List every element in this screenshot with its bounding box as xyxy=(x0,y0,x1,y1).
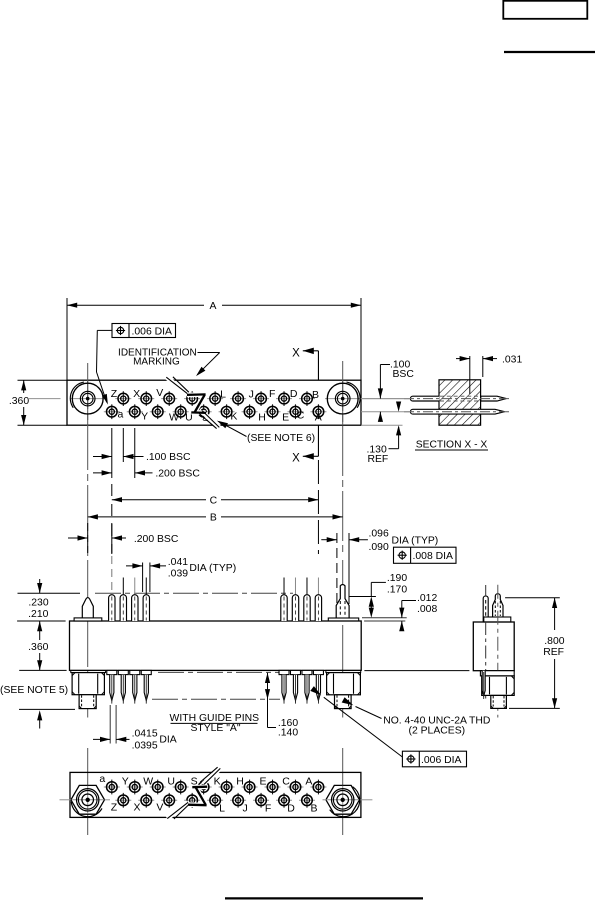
svg-text:.008: .008 xyxy=(417,604,437,615)
bottom view contact X (lower row) xyxy=(138,799,154,801)
svg-text:BSC: BSC xyxy=(393,369,415,380)
svg-text:Z: Z xyxy=(111,388,118,400)
svg-text:.360: .360 xyxy=(28,642,48,653)
svg-text:X: X xyxy=(133,388,140,400)
top view contact A (bottom row) xyxy=(310,411,326,413)
bottom view contact D (lower row) xyxy=(276,799,292,801)
svg-text:.012: .012 xyxy=(417,593,437,604)
extension line contact Z below body xyxy=(122,428,124,462)
front view left washer xyxy=(71,670,106,672)
dimension .012/.008 (flange thickness) xyxy=(362,617,407,619)
svg-text:.170: .170 xyxy=(387,584,407,595)
dimension B xyxy=(88,516,206,518)
top view .360 height dimension xyxy=(18,379,68,381)
svg-text:D: D xyxy=(287,802,295,814)
front view left guide pin flange xyxy=(74,618,102,621)
svg-text:Y: Y xyxy=(122,776,129,788)
svg-text:.800: .800 xyxy=(544,636,564,647)
svg-text:REF: REF xyxy=(543,647,564,658)
top view contact V (top row) xyxy=(161,398,177,400)
top view contact J (top row) xyxy=(230,398,246,400)
svg-text:.039: .039 xyxy=(168,568,188,579)
svg-text:MARKING: MARKING xyxy=(133,356,180,367)
leader: identification marking xyxy=(198,352,220,354)
svg-text:D: D xyxy=(290,388,298,400)
top view contact T (top row) xyxy=(184,398,200,400)
bottom view left hex nut xyxy=(71,785,105,814)
bottom view contact Y (upper row) xyxy=(127,786,143,788)
front view bottom pin column a xyxy=(107,670,117,674)
dimension .096/.090 DIA (TYP) xyxy=(321,539,337,541)
extension line contact Y below body xyxy=(134,428,136,478)
svg-text:H: H xyxy=(258,411,266,423)
top view contact U (bottom row) xyxy=(173,411,189,413)
top view contact a (bottom row) xyxy=(104,411,120,413)
svg-text:(SEE NOTE 5): (SEE NOTE 5) xyxy=(0,685,68,696)
title block box (top right) xyxy=(503,1,587,19)
dimension .160/.140 (bottom pin length) xyxy=(267,673,269,728)
bottom view contact E (upper row) xyxy=(265,786,281,788)
front view bottom dash-dot line at pin tip level xyxy=(152,698,280,700)
front view bottom pin column A xyxy=(313,670,323,674)
svg-text:U: U xyxy=(167,776,175,788)
top view contact B (top row) xyxy=(299,398,315,400)
front view right washer xyxy=(326,670,361,672)
svg-text:.140: .140 xyxy=(278,727,298,738)
front view pin tip line / row centerline (dash-dot) xyxy=(18,592,81,594)
bottom view contact V (lower row) xyxy=(161,799,177,801)
end view body xyxy=(473,622,514,671)
svg-text:DIA (TYP): DIA (TYP) xyxy=(392,536,439,547)
bottom view left hex nut flange arc xyxy=(71,802,102,817)
svg-text:F: F xyxy=(265,802,271,814)
svg-text:.200 BSC: .200 BSC xyxy=(155,469,200,480)
top view contact letters - top row xyxy=(111,387,319,401)
dimension .100 BSC (row offset) xyxy=(93,456,112,458)
svg-text:C: C xyxy=(297,410,305,422)
end view contact pin top xyxy=(483,596,488,622)
dimension C xyxy=(112,499,206,501)
front view bottom pin column D xyxy=(279,670,289,674)
front view left threaded stud xyxy=(79,695,96,709)
svg-text:STYLE "A": STYLE "A" xyxy=(190,723,240,734)
leader NO. 4-40 UNC-2A THD xyxy=(356,707,382,719)
left mounting hole centerline (horizontal) xyxy=(28,398,61,400)
svg-text:B: B xyxy=(312,389,319,401)
front view right guide pin xyxy=(336,585,349,619)
top view dimension A xyxy=(66,298,68,380)
front view right hex nut xyxy=(327,673,361,695)
section X-X bottom contact pin xyxy=(410,409,504,414)
bottom view contact K (upper row) xyxy=(219,786,235,788)
svg-text:L: L xyxy=(220,388,226,400)
front view top pin column D xyxy=(283,578,285,595)
svg-text:.096: .096 xyxy=(369,529,389,540)
svg-text:A: A xyxy=(305,776,312,788)
front view bottom pin column Y xyxy=(130,670,140,674)
section pin centerline top xyxy=(404,398,511,400)
svg-text:W: W xyxy=(143,776,153,788)
bottom view contact S (upper row) xyxy=(196,786,212,788)
svg-text:.041: .041 xyxy=(168,557,188,568)
end view threaded stud xyxy=(491,695,507,708)
top view contact C (bottom row) xyxy=(287,411,303,413)
top view contact H (bottom row) xyxy=(242,411,258,413)
bottom view contact U (upper row) xyxy=(173,786,189,788)
svg-text:SECTION X - X: SECTION X - X xyxy=(416,439,488,450)
svg-text:.100 BSC: .100 BSC xyxy=(146,452,191,463)
svg-text:.360: .360 xyxy=(9,396,29,407)
svg-text:.090: .090 xyxy=(369,542,389,553)
feature control frame .008 DIA xyxy=(394,547,457,563)
datum line from front view body bottom to end view xyxy=(364,670,469,672)
svg-text:A: A xyxy=(315,412,322,424)
svg-text:K: K xyxy=(230,411,237,423)
bottom view contact A (upper row) xyxy=(310,786,326,788)
bottom view contact T (lower row) xyxy=(184,799,200,801)
front view bottom pin column X xyxy=(141,670,151,674)
dimension .200 BSC (hole to contact) xyxy=(87,523,89,553)
top view contact L (top row) xyxy=(207,398,223,400)
svg-text:a: a xyxy=(117,409,123,421)
leader: (SEE NOTE 6) xyxy=(219,422,247,437)
dimension .200 BSC (contact pitch) xyxy=(93,472,112,474)
dimension .130 REF (section) xyxy=(396,402,401,412)
front view top pin column C xyxy=(294,578,296,595)
bottom view contact C (upper row) xyxy=(287,786,303,788)
end view bottom contact pin xyxy=(482,671,485,696)
left mounting hole xyxy=(87,380,89,425)
top view contact X (top row) xyxy=(138,398,154,400)
end view guide pin flange xyxy=(484,617,511,622)
top view contact W (bottom row) xyxy=(150,411,166,413)
front view top pin column Y xyxy=(134,578,136,595)
bottom view contact B (lower row) xyxy=(299,799,315,801)
front view left guide pin xyxy=(82,598,93,618)
dimension .230/.210 (pin height above body) xyxy=(37,583,42,593)
svg-text:V: V xyxy=(156,801,163,813)
svg-text:(SEE NOTE 6): (SEE NOTE 6) xyxy=(247,433,315,444)
dimension .360 (front view body height) xyxy=(17,620,66,622)
right mounting hole xyxy=(342,380,344,425)
bottom view contact Z (lower row) xyxy=(115,799,131,801)
bottom view right hex nut flange arc xyxy=(330,787,360,817)
feature control frame .006 DIA (top view) xyxy=(112,324,176,338)
dimension .190/.170 (right guide pin tip) xyxy=(350,596,376,598)
svg-text:.0395: .0395 xyxy=(132,741,158,752)
svg-text:(2 PLACES): (2 PLACES) xyxy=(409,726,466,737)
svg-text:.006 DIA: .006 DIA xyxy=(421,755,462,766)
front view bottom pin column B xyxy=(302,670,312,674)
bottom view contact a (upper row) xyxy=(104,786,120,788)
svg-text:F: F xyxy=(269,388,275,400)
front view top pin column X xyxy=(145,578,147,595)
extension lines from contact rows to section xyxy=(361,398,411,400)
svg-text:J: J xyxy=(249,388,254,400)
footer rule xyxy=(225,897,423,899)
dimension .100 BSC (section rows) xyxy=(380,364,390,366)
svg-text:.190: .190 xyxy=(387,573,407,584)
stud bottom extension line and arrow (see note 5) xyxy=(19,708,75,710)
svg-text:C: C xyxy=(282,776,290,788)
identification marking symbol (bottom view) xyxy=(167,767,220,819)
section X-X top contact pin (hidden inside block) xyxy=(410,396,439,401)
front view right threaded stud xyxy=(335,695,352,709)
svg-text:X: X xyxy=(133,801,140,813)
svg-text:X: X xyxy=(292,347,300,359)
svg-text:.006 DIA: .006 DIA xyxy=(132,327,173,338)
svg-text:H: H xyxy=(236,776,244,788)
contact pin dia .041/.039 extension lines xyxy=(142,563,144,593)
right mounting hole centerline (vertical, runs through all views) xyxy=(342,361,344,556)
front view body outline xyxy=(70,621,362,670)
bottom view contact H (upper row) xyxy=(242,786,258,788)
svg-text:B: B xyxy=(210,513,217,524)
front view right guide pin flange xyxy=(328,618,358,621)
front view bottom dash-dot line at shoulder level xyxy=(158,671,280,673)
top view contact letters - bottom row xyxy=(117,409,321,425)
top view contact Y (bottom row) xyxy=(127,411,143,413)
top view body outline xyxy=(67,380,361,425)
svg-text:W: W xyxy=(169,412,179,424)
svg-text:K: K xyxy=(214,776,221,788)
extension line section/contact A below body xyxy=(317,460,319,554)
section pin centerline bottom xyxy=(404,411,509,413)
bottom view right nut crosshair xyxy=(323,799,327,801)
bottom view right hex nut xyxy=(326,785,360,814)
bottom view left nut crosshair xyxy=(60,799,72,801)
dimension .031 (section) xyxy=(469,356,471,394)
front view bottom pin column C xyxy=(290,670,300,674)
svg-text:X: X xyxy=(292,452,300,464)
end view guide pin xyxy=(493,594,503,617)
dimension .800 REF (end view) xyxy=(505,597,560,599)
front view top pin column A xyxy=(317,578,319,595)
front view left hex nut xyxy=(72,673,104,695)
guide pin dia .096/.090 extension lines xyxy=(336,533,338,603)
left mounting hole centerline (vertical, runs through all views) xyxy=(87,363,89,556)
front view top pin column a xyxy=(111,556,113,594)
front view bottom pin column Z xyxy=(118,670,128,674)
svg-text:A: A xyxy=(210,301,217,312)
feature control frame .006 DIA (lower) xyxy=(402,751,466,767)
svg-text:C: C xyxy=(210,496,218,507)
front view top pin column Z xyxy=(122,578,124,595)
bottom view contact letters - upper row xyxy=(99,773,312,787)
bottom view contact W (upper row) xyxy=(150,786,166,788)
svg-text:.008 DIA: .008 DIA xyxy=(413,551,454,562)
svg-text:L: L xyxy=(219,802,225,814)
svg-text:B: B xyxy=(310,802,317,814)
svg-text:E: E xyxy=(259,776,266,788)
svg-text:Z: Z xyxy=(111,801,118,813)
svg-text:.210: .210 xyxy=(28,609,48,620)
svg-text:E: E xyxy=(282,411,289,423)
extension line contact a below body xyxy=(111,428,113,478)
end view washer xyxy=(480,671,514,676)
svg-text:REF: REF xyxy=(368,454,389,465)
bottom view contact L (lower row) xyxy=(207,799,223,801)
bottom view contact J (lower row) xyxy=(230,799,246,801)
top view contact K (bottom row) xyxy=(219,411,235,413)
bottom view contact F (lower row) xyxy=(253,799,269,801)
svg-text:a: a xyxy=(99,773,105,785)
bottom view contact letters - lower row xyxy=(111,801,318,814)
svg-text:J: J xyxy=(242,802,247,814)
leader from .006 DIA frame to contact a xyxy=(97,329,112,331)
dimension .041/.039 DIA (TYP) xyxy=(126,565,143,567)
svg-text:DIA: DIA xyxy=(159,735,176,746)
svg-text:.200 BSC: .200 BSC xyxy=(134,534,179,545)
end view centerline xyxy=(497,585,499,718)
identification marking symbol (top view) xyxy=(166,377,219,429)
svg-text:.230: .230 xyxy=(28,597,48,608)
top view contact Z (top row) xyxy=(115,398,131,400)
top view contact E (bottom row) xyxy=(265,411,281,413)
bottom view body outline xyxy=(70,772,361,817)
right mounting hole centerline (horizontal) xyxy=(325,398,411,400)
top view contact S (bottom row) xyxy=(196,411,212,413)
svg-text:.031: .031 xyxy=(502,355,522,366)
end view hex nut xyxy=(482,676,515,696)
svg-text:Y: Y xyxy=(141,411,148,423)
end view contact column centerline xyxy=(485,622,487,699)
svg-text:DIA (TYP): DIA (TYP) xyxy=(189,563,236,574)
front view top pin column B xyxy=(306,578,308,595)
dimension .0415/.0395 DIA (bottom pin dia) xyxy=(109,705,111,744)
svg-text:V: V xyxy=(156,387,163,399)
title block rule xyxy=(504,51,595,53)
svg-text:.0415: .0415 xyxy=(132,728,158,739)
top view contact D (top row) xyxy=(276,398,292,400)
top view contact F (top row) xyxy=(253,398,269,400)
leader .006 DIA to pin A tip xyxy=(324,697,403,757)
